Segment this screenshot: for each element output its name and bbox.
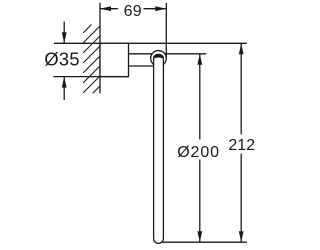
arm bottom line (129, 65, 154, 67)
wall face line (99, 3, 101, 94)
extension line 69 right (165, 3, 167, 58)
pivot cap white fill (151, 51, 166, 66)
extension line ring top (arm top / diameter 200) (129, 53, 207, 55)
dimension line diameter 35 (62, 22, 67, 100)
pivot pin bore arc (154, 54, 163, 58)
dimension line 69 (100, 6, 166, 11)
extension line plate bottom (53, 76, 128, 78)
wall hatching (83, 16, 100, 103)
dimension line diameter 200 (197, 54, 202, 242)
dimension line 212 (239, 43, 244, 242)
extension line top (212 / plate top) (54, 42, 247, 44)
svg-text:69: 69 (124, 3, 142, 20)
svg-text:Ø35: Ø35 (44, 49, 79, 70)
svg-text:Ø200: Ø200 (177, 144, 220, 161)
extension line bottom (158, 241, 247, 243)
mounting plate (100, 43, 129, 76)
svg-text:212: 212 (228, 137, 255, 154)
towel ring tube (154, 54, 164, 243)
pivot cap arc (151, 51, 167, 65)
